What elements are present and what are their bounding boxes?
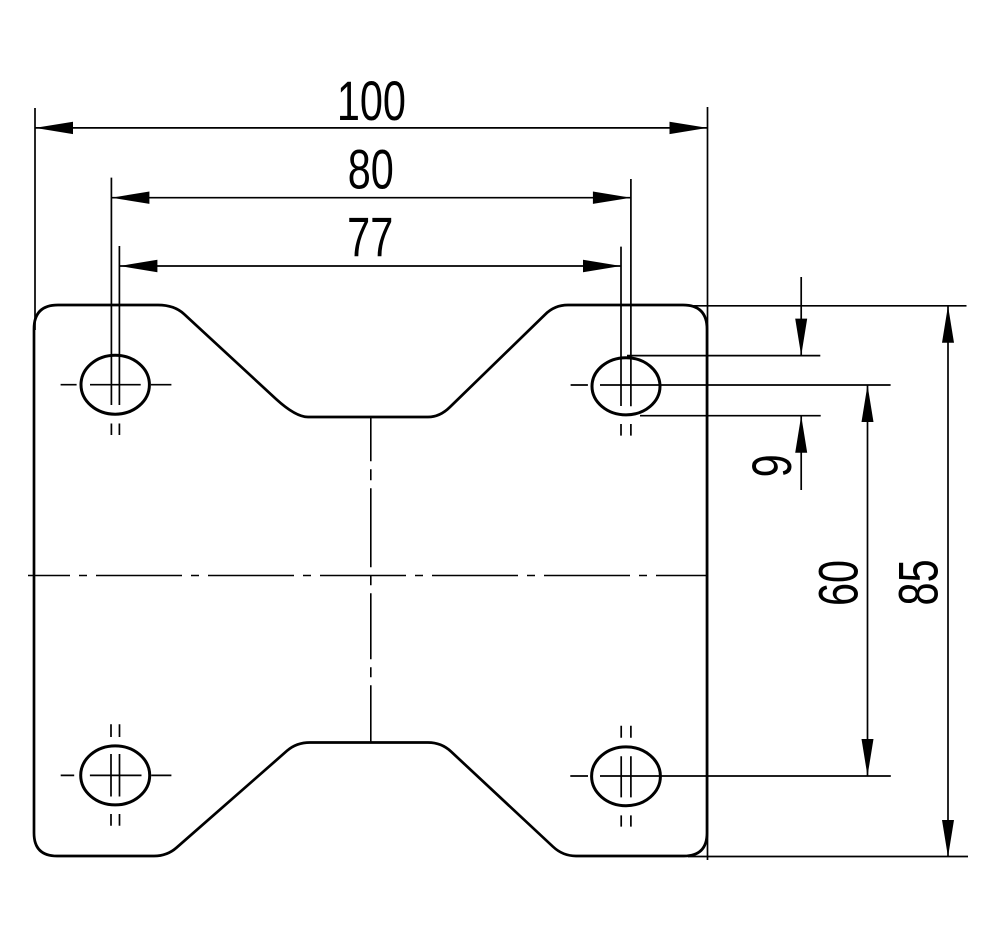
svg-text:77: 77 bbox=[347, 206, 393, 269]
hole top-right bbox=[592, 358, 660, 415]
label 85 bbox=[888, 559, 951, 605]
arrow 77 right bbox=[583, 260, 621, 272]
label 60 bbox=[807, 560, 870, 606]
svg-text:85: 85 bbox=[888, 559, 951, 605]
arrow 9 bottom bbox=[795, 416, 807, 453]
dimension line 85 bbox=[947, 306, 949, 857]
centerline hole top-left bbox=[61, 384, 172, 386]
arrow 60 top bbox=[862, 385, 874, 422]
label 77 bbox=[347, 206, 393, 269]
arrow 77 left bbox=[119, 260, 157, 272]
svg-text:60: 60 bbox=[807, 560, 870, 606]
hole top-left bbox=[81, 355, 149, 414]
dimension line 100 bbox=[35, 127, 708, 129]
extension line plate top edge for dim 85 bbox=[690, 305, 967, 307]
arrow 85 bottom bbox=[942, 820, 954, 857]
extension line hole top tangent for dim 9 bbox=[627, 355, 820, 357]
plate outline bbox=[34, 305, 707, 856]
arrow 80 right bbox=[593, 192, 631, 204]
centerline hole top-right extension to 60 dim bbox=[571, 384, 891, 386]
label 100 bbox=[337, 70, 406, 133]
arrow 9 top bbox=[795, 319, 807, 356]
hole centerline dashes around bottom-left hole bbox=[111, 724, 120, 826]
centerline horizontal plate bbox=[28, 575, 707, 577]
extension line plate bottom edge for dim 85 bbox=[688, 856, 968, 858]
arrow 85 top bbox=[942, 306, 954, 343]
svg-text:100: 100 bbox=[337, 70, 406, 133]
dimension line 9 lower segment bbox=[800, 416, 802, 490]
centerline hole bottom-right extension to 60 dim bbox=[570, 775, 891, 777]
hole centerline dashes below top-right hole bbox=[621, 424, 631, 436]
extension line left for dim 100 bbox=[34, 108, 36, 330]
label 9 bbox=[741, 454, 804, 477]
arrow 100 right bbox=[670, 122, 708, 134]
arrow 60 bottom bbox=[862, 739, 874, 776]
hole centerline dashes around bottom-right hole bbox=[621, 726, 631, 827]
hole bottom-right bbox=[592, 747, 661, 806]
svg-text:9: 9 bbox=[741, 454, 804, 477]
label 80 bbox=[348, 139, 394, 202]
svg-text:80: 80 bbox=[348, 139, 394, 202]
extension line right for dim 100 bbox=[707, 107, 709, 860]
centerline vertical plate bbox=[370, 417, 372, 742]
arrow 100 left bbox=[35, 122, 73, 134]
extension line right for dim 80 bbox=[630, 179, 632, 406]
hole centerline dashes below top-left hole bbox=[111, 424, 119, 436]
extension line hole bottom tangent for dim 9 bbox=[640, 415, 821, 417]
arrow 80 left bbox=[111, 192, 149, 204]
dimension line 9 upper segment bbox=[800, 277, 802, 356]
extension line right for dim 77 bbox=[620, 247, 622, 406]
dimension line 60 bbox=[867, 385, 869, 776]
dimension line 80 bbox=[111, 197, 631, 199]
extension line left for dim 77 bbox=[118, 246, 120, 405]
hole bottom-left bbox=[81, 746, 150, 805]
centerline hole bottom-left bbox=[61, 774, 172, 776]
dimension line 77 bbox=[119, 265, 621, 267]
extension line left for dim 80 bbox=[110, 178, 112, 405]
